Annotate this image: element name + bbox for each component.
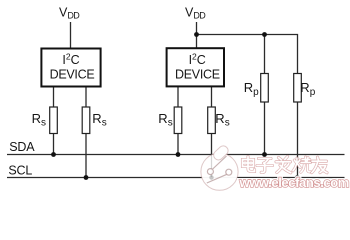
watermark text shao (293, 157, 311, 172)
wire Rs2 to SCL (85, 133, 87, 178)
resistor Rs3 body (174, 107, 182, 134)
resistor Rp2 body (294, 74, 302, 103)
junction branch Rp1 (262, 32, 267, 37)
wire VDD2 to U2 (196, 22, 198, 49)
IC U1 box I2C DEVICE (41, 49, 100, 87)
svg-text:VDD: VDD (185, 6, 206, 21)
svg-text:SCL: SCL (8, 164, 32, 178)
junction Rp1 SDA (262, 152, 267, 157)
resistor Rs4 body (208, 107, 216, 134)
watermark text fa (276, 157, 291, 173)
svg-text:Rp: Rp (300, 80, 315, 98)
resistor Rs2 body (82, 107, 90, 134)
SDA bus line (7, 154, 345, 156)
wire Rs3 to SDA (177, 133, 179, 155)
wire U1 pin to Rs2 (85, 87, 87, 108)
SCL bus line (7, 177, 345, 179)
svg-text:Rs: Rs (32, 111, 46, 128)
watermark logo band tab (212, 144, 230, 162)
svg-text:Rs: Rs (215, 111, 229, 128)
svg-text:Rs: Rs (92, 111, 106, 128)
junction Rs4 SCL faint trace (209, 175, 213, 179)
watermark logo ring B (226, 169, 232, 175)
wire branch to Rp1 (264, 35, 266, 74)
junction Rs2 SCL (84, 175, 89, 180)
svg-text:I2C: I2C (189, 52, 206, 68)
wire Rs4 faint trace inside logo (211, 155, 213, 177)
resistor Rp1 body (261, 74, 269, 103)
resistor Rs1 body (50, 107, 58, 134)
svg-text:www.elecfans.com: www.elecfans.com (239, 175, 349, 190)
watermark logo cable 2 (207, 174, 227, 183)
svg-text:SDA: SDA (9, 140, 35, 154)
watermark logo circle (201, 153, 238, 190)
watermark url text (239, 175, 349, 190)
junction Rs3 SDA (176, 152, 181, 157)
wire Rp2 to SCL (297, 102, 299, 178)
wire VDD1 to U1 (70, 22, 72, 49)
junction Rs4 SCL (209, 175, 214, 180)
watermark text zi (257, 159, 273, 173)
wire Rs4 to SCL (211, 133, 213, 178)
watermark logo cable 1 (213, 156, 227, 169)
wire Rs1 to SDA (53, 133, 55, 155)
svg-text:DEVICE: DEVICE (175, 68, 220, 82)
svg-text:DEVICE: DEVICE (50, 68, 95, 82)
wire VDD branch to Rp2 (197, 35, 298, 74)
wire U2 pin to Rs3 (177, 87, 179, 108)
watermark text you (312, 157, 327, 173)
wire U2 pin to Rs4 (211, 87, 213, 108)
watermark text dian (243, 157, 255, 172)
wire Rp1 to SDA (264, 102, 266, 155)
junction Rp2 SCL (295, 175, 300, 180)
svg-text:VDD: VDD (59, 6, 80, 21)
wire U1 pin to Rs1 (53, 87, 55, 108)
junction VDD2 branch (194, 32, 199, 37)
svg-text:Rs: Rs (158, 111, 172, 128)
svg-text:Rp: Rp (244, 80, 259, 98)
IC U2 box I2C DEVICE (167, 48, 224, 86)
svg-text:I2C: I2C (62, 52, 79, 68)
junction Rs1 SDA (51, 152, 56, 157)
watermark logo ring A (207, 169, 213, 175)
